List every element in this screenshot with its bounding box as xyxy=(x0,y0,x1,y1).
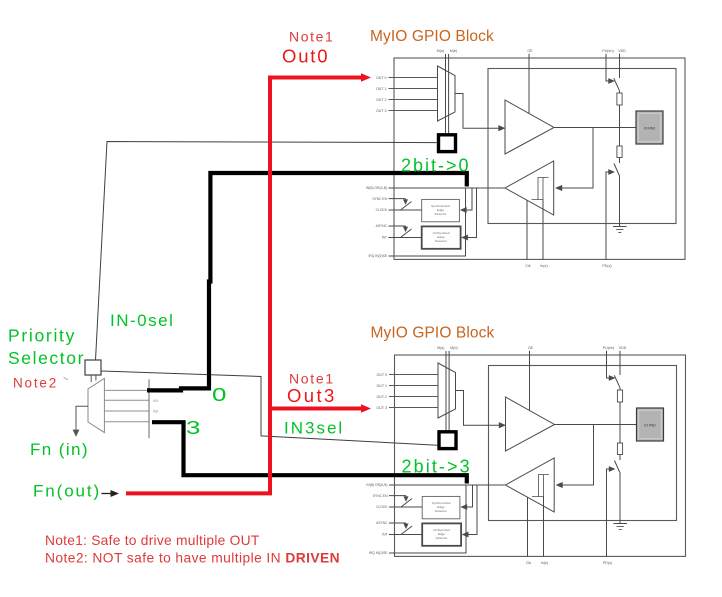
pull-up switch SW1a xyxy=(614,78,620,91)
priority selector select box xyxy=(85,360,101,375)
red arrow into block1 OUT0 xyxy=(361,73,371,82)
svg-text:CLOCK: CLOCK xyxy=(376,505,388,509)
PD(s) arrow xyxy=(609,466,615,471)
schmitt U2b output wire xyxy=(467,484,506,486)
svg-text:Out3: Out3 xyxy=(287,385,337,406)
arrow into D2a xyxy=(461,504,467,509)
net wire IN(B) row xyxy=(389,484,467,486)
svg-text:OUT 1: OUT 1 xyxy=(376,87,387,91)
buffer U2a output wire to pad xyxy=(555,424,637,426)
arrow into D2b xyxy=(462,532,468,537)
mux M2 select lines xyxy=(445,351,447,431)
hysteresis symbol in U1b xyxy=(532,178,549,200)
2-bit select box B1 (thick square) xyxy=(439,135,456,152)
svg-text:OUT 3: OUT 3 xyxy=(376,109,387,113)
output buffer U2a xyxy=(506,397,555,451)
svg-text:IN2: IN2 xyxy=(153,410,158,414)
selector select stubs xyxy=(91,375,96,382)
svg-text:ASYNC: ASYNC xyxy=(376,521,388,525)
ground GND1 xyxy=(613,227,627,233)
int wire and switch into async detector xyxy=(389,534,422,536)
svg-text:VDD: VDD xyxy=(618,49,626,53)
svg-text:SYNC EN: SYNC EN xyxy=(373,494,388,498)
svg-text:IN(B) OR(A,B): IN(B) OR(A,B) xyxy=(366,186,387,190)
synchronized edge detector box D1a xyxy=(422,199,460,221)
arrow into D1a xyxy=(460,207,466,212)
svg-text:IN3sel: IN3sel xyxy=(284,419,344,438)
svg-text:IN(B) OR(A,B): IN(B) OR(A,B) xyxy=(366,483,387,487)
svg-text:Note1: Note1 xyxy=(289,29,334,45)
pull-down resistor R2b xyxy=(617,443,622,455)
svg-text:OUT 3: OUT 3 xyxy=(376,406,387,410)
PU(en) control line xyxy=(606,54,609,81)
svg-text:IRQ IN(2)SE: IRQ IN(2)SE xyxy=(368,254,387,258)
svg-text:2bit->0: 2bit->0 xyxy=(401,156,471,176)
buffer U2a enable line OE xyxy=(529,351,531,411)
PD(s) control line xyxy=(607,469,610,556)
svg-text:M(a): M(a) xyxy=(437,346,444,350)
svg-text:M(a): M(a) xyxy=(437,49,444,53)
svg-text:INT: INT xyxy=(382,236,387,240)
svg-text:IRQ IN(2)SE: IRQ IN(2)SE xyxy=(369,551,388,555)
un-synched edge detector box D2b xyxy=(422,523,461,545)
selector output arrow xyxy=(73,430,79,437)
svg-text:Detector: Detector xyxy=(435,239,447,243)
svg-text:Selector: Selector xyxy=(8,348,85,368)
PU(en) arrow xyxy=(609,375,615,380)
svg-text:PD(s): PD(s) xyxy=(602,264,611,268)
wire schmitt out to D1b xyxy=(466,188,477,238)
pad feedback wire to schmitt U2b xyxy=(562,425,594,486)
thick wire 2bit->0 (block1 schmitt out to selector IN0) xyxy=(147,173,467,390)
stray tick mark xyxy=(64,377,69,380)
wire IN-0sel (selector to block1 2bit box) xyxy=(96,142,437,361)
sync-enable wire xyxy=(389,198,406,200)
svg-text:IN1: IN1 xyxy=(153,399,158,403)
svg-text:OUT 1: OUT 1 xyxy=(376,384,387,388)
priority selector mux xyxy=(88,378,104,432)
net wire IN(B) row xyxy=(389,187,467,189)
arrow into buffer U1a xyxy=(499,125,506,131)
svg-text:VDD: VDD xyxy=(619,346,627,350)
wire resistor to pad node xyxy=(619,402,621,443)
U2b enable line 1 xyxy=(527,497,529,556)
svg-text:PD(s): PD(s) xyxy=(603,561,612,565)
pull-down switch SW1b xyxy=(614,164,620,177)
2-bit select box B2 (thick square) xyxy=(439,432,456,449)
pull-up resistor R2a xyxy=(619,388,621,390)
svg-text:IO PAD: IO PAD xyxy=(644,127,656,131)
svg-text:In(e): In(e) xyxy=(540,264,547,268)
svg-text:3: 3 xyxy=(186,418,200,439)
Fn(out) black arrow xyxy=(102,493,113,495)
GPIO block 1 outer boundary xyxy=(394,58,685,259)
schmitt input buffer U1b xyxy=(505,161,554,215)
wire switch to ground xyxy=(619,177,621,227)
IRQ wire xyxy=(389,188,466,256)
arrow into schmitt U1b xyxy=(556,185,563,191)
svg-text:CLOCK: CLOCK xyxy=(376,208,388,212)
svg-text:MyIO GPIO Block: MyIO GPIO Block xyxy=(370,28,494,45)
svg-text:In(e): In(e) xyxy=(541,561,548,565)
wire resistor to pad node xyxy=(619,105,621,146)
synchronized edge detector box D2a xyxy=(422,496,460,518)
mux M1 select lines xyxy=(445,54,447,134)
svg-text:OUT 2: OUT 2 xyxy=(376,395,387,399)
GPIO block 1 inner boundary xyxy=(488,69,676,224)
PD(s) arrow xyxy=(609,169,615,174)
hysteresis symbol in U2b xyxy=(532,475,549,497)
mux M1 input wires OUT0-OUT3 xyxy=(389,77,438,79)
svg-text:0: 0 xyxy=(212,385,226,406)
schmitt U1b output wire xyxy=(466,187,505,189)
svg-text:ASYNC: ASYNC xyxy=(376,224,388,228)
pull-down switch SW2b xyxy=(615,461,621,474)
svg-text:OE: OE xyxy=(528,346,534,350)
arrow into D1b xyxy=(462,235,468,240)
red wire Fn(out) / Out0 / Out3 xyxy=(126,78,363,494)
buffer U1a output wire to pad xyxy=(554,127,636,129)
svg-text:OUT 0: OUT 0 xyxy=(376,373,387,377)
VDD supply line xyxy=(619,54,621,78)
wire schmitt out to D2a xyxy=(465,485,473,507)
svg-text:SYNC EN: SYNC EN xyxy=(372,197,387,201)
sync-enable wire xyxy=(389,495,406,497)
clock wire and switch into sync detector xyxy=(389,506,422,508)
IRQ wire xyxy=(389,485,466,553)
mux M1 (output select) xyxy=(438,66,456,121)
svg-text:Detector: Detector xyxy=(436,536,448,540)
U1b enable line 1 xyxy=(526,200,528,259)
arrow into schmitt U2b xyxy=(556,482,563,488)
svg-text:OUT 2: OUT 2 xyxy=(376,98,387,102)
svg-text:INT: INT xyxy=(382,533,387,537)
pull-down resistor R1b xyxy=(617,146,622,158)
pull-up resistor R1a xyxy=(619,91,621,93)
wire schmitt out to D1a xyxy=(464,188,472,210)
svg-text:Out0: Out0 xyxy=(282,46,329,67)
svg-text:IO PAD: IO PAD xyxy=(644,424,656,428)
svg-text:2bit->3: 2bit->3 xyxy=(402,457,472,477)
svg-text:PU(en): PU(en) xyxy=(603,346,614,350)
PU(en) control line xyxy=(607,351,610,378)
selector input bus xyxy=(148,379,150,438)
int wire and switch into async detector xyxy=(389,237,422,239)
svg-text:Note1: Safe to drive multiple: Note1: Safe to drive multiple OUT xyxy=(45,533,260,548)
VDD supply line xyxy=(619,351,621,375)
wire switch to ground xyxy=(619,474,621,524)
GPIO block 2 outer boundary xyxy=(395,355,686,556)
pull-up switch SW2a xyxy=(614,375,620,388)
PD(s) control line xyxy=(606,172,609,259)
mux M1 output wire xyxy=(455,94,500,129)
pad feedback wire to schmitt U1b xyxy=(561,128,593,189)
selector input rows xyxy=(104,390,149,421)
async wire xyxy=(389,225,406,227)
output buffer U1a xyxy=(505,100,554,154)
svg-text:Priority: Priority xyxy=(8,326,76,346)
svg-text:PU(en): PU(en) xyxy=(602,49,613,53)
U1b enable line 2 xyxy=(542,200,544,260)
svg-text:Note2: NOT safe to have multip: Note2: NOT safe to have multiple IN DRIV… xyxy=(45,550,340,565)
thick wire 2bit->3 (block2 schmitt out to selector IN3) xyxy=(152,422,467,483)
svg-text:Detector: Detector xyxy=(435,509,447,513)
async wire xyxy=(389,522,406,524)
schmitt input buffer U2b xyxy=(506,458,555,512)
GPIO block 2 inner boundary xyxy=(489,366,677,521)
svg-text:OE: OE xyxy=(527,49,533,53)
ground GND2 xyxy=(614,524,628,530)
svg-text:Note2: Note2 xyxy=(13,376,58,391)
un-synched edge detector box D1b xyxy=(422,226,461,248)
clock wire and switch into sync detector xyxy=(389,209,422,211)
U2b enable line 2 xyxy=(543,497,545,557)
IO pad PAD2 xyxy=(637,408,664,441)
svg-text:OUT 0: OUT 0 xyxy=(376,76,387,80)
svg-text:M(b): M(b) xyxy=(450,49,457,53)
svg-text:IN-0sel: IN-0sel xyxy=(110,311,174,330)
wire IN3sel (selector to block2 2bit box) xyxy=(101,371,437,445)
mux M2 input wires OUT0-OUT3 xyxy=(389,374,438,376)
svg-text:Fn(out): Fn(out) xyxy=(33,482,101,501)
wire schmitt out to D2b xyxy=(466,485,477,535)
svg-text:Fn (in): Fn (in) xyxy=(30,440,89,459)
svg-text:Clk: Clk xyxy=(526,561,531,565)
svg-text:M(b): M(b) xyxy=(450,346,457,350)
svg-text:MyIO GPIO Block: MyIO GPIO Block xyxy=(371,325,495,342)
svg-text:Clk: Clk xyxy=(525,264,530,268)
mux M2 (output select) xyxy=(438,363,456,418)
selector output wire Fn(in) xyxy=(76,406,88,430)
IO pad PAD1 xyxy=(636,111,663,144)
arrow into buffer U2a xyxy=(499,422,506,428)
buffer U1a enable line OE xyxy=(528,54,530,114)
red arrow into block2 OUT3 xyxy=(361,404,371,413)
svg-text:Detector: Detector xyxy=(435,212,447,216)
PU(en) arrow xyxy=(609,78,615,83)
mux M2 output wire xyxy=(456,391,501,426)
